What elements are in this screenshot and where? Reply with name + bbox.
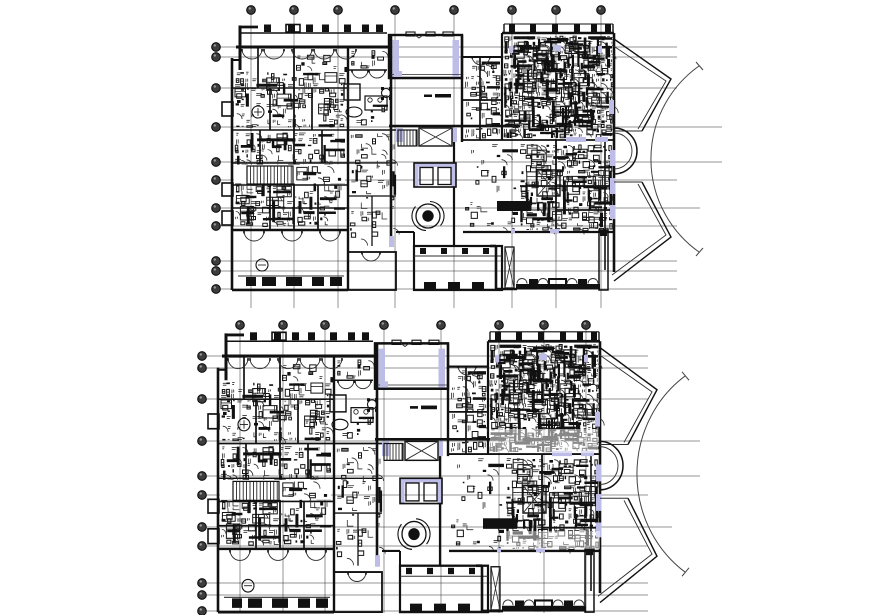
right block parapet [490, 331, 599, 333]
corridor white band [220, 480, 331, 500]
grid bubble left [198, 591, 207, 600]
grid line vertical [239, 329, 241, 613]
grid line horizontal [220, 161, 722, 163]
portico centre [400, 566, 488, 612]
interior wall y70 with doors [334, 379, 373, 381]
wall protrusion left 1 [208, 414, 219, 429]
interior wall vertical x392 [376, 343, 379, 565]
living room couch [330, 395, 346, 412]
apse bay semicircle [600, 441, 623, 489]
grid line vertical [440, 329, 442, 613]
exterior wall top [222, 355, 375, 358]
grid line horizontal [220, 179, 677, 181]
grid bubble top [236, 321, 245, 330]
core top wall y126 [375, 438, 506, 440]
portico step wall [382, 550, 400, 552]
apse bay semicircle [614, 128, 637, 174]
right block exterior wall top [502, 32, 614, 35]
suite block clutter [521, 144, 612, 230]
grid bubble top [437, 321, 446, 330]
grid line horizontal [220, 260, 677, 262]
core blue pads [382, 441, 389, 456]
grid line vertical [555, 14, 557, 308]
canopy chevron bottom inner [612, 184, 666, 275]
hall crenellation [392, 340, 401, 344]
portico centre bottom blocks [424, 282, 436, 289]
white room below hall [435, 94, 451, 98]
living room clutter light [356, 109, 384, 123]
right block wall right [613, 33, 616, 272]
grid bubble left [198, 542, 207, 551]
wall protrusion left 2 [208, 499, 219, 513]
dining set [368, 400, 377, 409]
grid line vertical [453, 14, 455, 308]
bath fixture oval 1 [238, 418, 250, 431]
interior wall vertical x462 [447, 343, 449, 456]
interior wall vertical x348 [347, 47, 349, 290]
terrace right step wall left [481, 566, 484, 612]
grid bubble left [212, 176, 221, 185]
canopy chevron bottom inner [598, 500, 652, 596]
elevator bank [400, 478, 442, 482]
fireplace spiral [416, 204, 440, 228]
grid bubble left [198, 607, 207, 615]
terrace door arcs left wing [244, 231, 254, 241]
canopy stub walls [600, 444, 628, 446]
site arc large [651, 66, 699, 252]
canopy stub walls [614, 130, 642, 132]
terrace right bottom wall band [502, 606, 586, 612]
grid line vertical [498, 329, 500, 613]
dining table [365, 96, 387, 110]
interior wall y88 [218, 398, 334, 400]
terrace blue bit [497, 548, 501, 552]
interior wall y163 [218, 477, 334, 479]
reception desk [497, 201, 531, 211]
grid bubble left [212, 257, 221, 266]
grid line horizontal [220, 207, 700, 209]
terrace posts [529, 279, 538, 288]
living room clutter light [342, 421, 370, 436]
mid rooms clutter [466, 61, 500, 138]
site arc tick top [696, 62, 703, 70]
grid line vertical [394, 14, 396, 308]
terrace bottom blocks [232, 598, 242, 607]
grid bubble left [212, 84, 221, 93]
hall blue pads [393, 40, 400, 77]
elevator X box [537, 170, 560, 196]
terrace right step wall left [495, 246, 498, 290]
interior wall vertical x462 [461, 35, 463, 142]
right block wall inner right [604, 140, 606, 270]
right block parapet [504, 23, 613, 25]
grid bubble top [552, 6, 561, 15]
parapet blocks [264, 25, 271, 33]
grid line vertical [600, 14, 602, 308]
tone correction lower plan [490, 429, 598, 453]
grid bubble left [212, 43, 221, 52]
core X shaft [419, 128, 452, 146]
right block wall left [487, 341, 489, 454]
grid line horizontal [220, 225, 677, 227]
site arc tick bottom [696, 248, 703, 256]
interior wall vertical x294 [279, 356, 281, 549]
reception desk [483, 518, 517, 529]
left wing room clutter lower [221, 447, 331, 545]
hall floor line [391, 74, 461, 76]
wall y57 segment [463, 56, 502, 58]
bath fixture oval 2 [256, 259, 268, 271]
living room oval table [346, 107, 362, 117]
grid bubble top [321, 321, 330, 330]
terrace scallop arcs [503, 600, 513, 605]
exterior wall left [231, 58, 234, 290]
terrace mid-left [334, 572, 382, 612]
exterior wall left [217, 368, 220, 612]
grid line vertical [383, 329, 385, 613]
wall protrusion left 2 [222, 183, 233, 196]
right block wall inner right [590, 454, 592, 591]
grid bubble left [198, 395, 207, 404]
bath fixture oval 2 [242, 579, 254, 592]
corner wall top-left [225, 333, 228, 380]
terrace right wall column [585, 549, 594, 612]
grid line horizontal [220, 56, 677, 58]
grid line horizontal [220, 270, 677, 272]
grid bubble top [290, 6, 299, 15]
grid line horizontal [220, 288, 677, 290]
terrace scallop arcs [517, 279, 527, 284]
core blue pads [396, 128, 403, 142]
core stair hatch [398, 130, 416, 146]
wall protrusion left 3 [222, 211, 233, 225]
interior wall y208 [232, 207, 348, 209]
hall blue pads [379, 349, 386, 388]
left wing room clutter upper [235, 72, 345, 127]
grid line horizontal [206, 582, 648, 584]
interior wall vertical x392 [390, 35, 393, 246]
grid bubble left [212, 123, 221, 132]
terrace right bottom wall band [516, 284, 600, 290]
exterior wall top [236, 46, 389, 49]
portico step wall [396, 231, 414, 233]
grid bubble left [212, 204, 221, 213]
centre furniture band above doors [337, 361, 360, 378]
core stair hatch [384, 443, 402, 460]
grid line horizontal [206, 526, 672, 528]
grid line vertical [511, 14, 513, 308]
grid line horizontal [206, 494, 648, 496]
left wing room clutter upper [221, 383, 331, 441]
grid bubble top [380, 321, 389, 330]
window accent blue extras [394, 71, 402, 77]
grand hall [375, 343, 448, 388]
interior wall y185 [218, 500, 334, 502]
canopy chevron top inner [612, 45, 666, 129]
partition walls left wing [257, 47, 259, 88]
grid bubble left [198, 472, 207, 481]
canopy chevron top outer [600, 348, 657, 445]
grid bubble top [582, 321, 591, 330]
wall y232 right [449, 550, 600, 552]
corner wall top-left [239, 26, 242, 71]
grid bubble left [198, 491, 207, 500]
grid bubble left [198, 437, 207, 446]
grid line vertical [250, 14, 252, 308]
left wing room clutter lower [235, 133, 345, 226]
grid line vertical [324, 329, 326, 613]
hall bottom wall [389, 77, 462, 79]
grid line horizontal [220, 87, 677, 89]
site arc large [637, 376, 685, 572]
exterior wall bottom left wing [218, 611, 334, 614]
hall bottom wall [375, 388, 448, 390]
grid bubble left [212, 158, 221, 167]
elevator bank [414, 163, 456, 167]
terrace X box [491, 567, 500, 610]
suite block clutter [507, 459, 598, 549]
portico centre bottom blocks [410, 604, 422, 611]
site arc tick top [682, 372, 689, 380]
partition walls right [465, 367, 467, 454]
grid bubble top [508, 6, 517, 15]
interior wall vertical x294 [293, 47, 295, 230]
centre furniture band above doors [351, 52, 374, 68]
interior wall vertical x348 [333, 356, 335, 612]
core top wall y126 [389, 125, 520, 127]
bath fixture oval 1 [252, 106, 264, 118]
grid line horizontal [206, 367, 648, 369]
terrace wall y230 [232, 229, 348, 231]
grid bubble top [334, 6, 343, 15]
terrace inner line [238, 275, 344, 277]
grid line horizontal [206, 355, 648, 357]
interior wall vertical x454 [453, 140, 455, 246]
interior wall y185 [232, 184, 348, 186]
exterior wall bottom left wing [232, 289, 348, 292]
terrace door arcs left wing [230, 550, 240, 561]
grid bubble left [212, 53, 221, 62]
grid bubble top [495, 321, 504, 330]
interior wall y208 [218, 525, 334, 527]
grid line horizontal [206, 545, 648, 547]
grid line vertical [585, 329, 587, 613]
interior wall y70 with doors [348, 69, 387, 71]
terrace posts [515, 600, 524, 609]
grid bubble top [540, 321, 549, 330]
window accent blue extras [380, 381, 388, 387]
window accents blue right wall [596, 465, 602, 482]
grid line horizontal [206, 610, 648, 612]
wall protrusion left 1 [222, 102, 233, 116]
grid bubble top [279, 321, 288, 330]
corridor white band [234, 165, 345, 184]
centre corridor clutter [337, 447, 380, 543]
interior wall vertical x454 [439, 454, 441, 566]
grid bubble left [198, 579, 207, 588]
elevator X box [523, 486, 546, 513]
wall y57 segment [449, 366, 488, 368]
right block wall right [599, 341, 602, 593]
terrace inner line [224, 596, 330, 598]
living room couch [344, 84, 360, 100]
wall y140 [449, 453, 600, 455]
canopy chevron bottom outer [600, 498, 657, 602]
grid line horizontal [206, 594, 648, 596]
grand hall [389, 35, 462, 78]
wall y140 [463, 139, 614, 141]
mid rooms clutter [452, 371, 486, 452]
grid line vertical [337, 14, 339, 308]
partition walls centre [334, 477, 382, 479]
fireplace spiral [402, 521, 426, 546]
interior wall y130 [232, 129, 396, 131]
grid bubble left [198, 523, 207, 532]
window accents blue right wall [610, 150, 616, 166]
grid bubble top [450, 6, 459, 15]
service block clutter dense [504, 36, 614, 137]
corridor clutter sparse right [466, 145, 513, 226]
parapet blocks [250, 332, 257, 340]
corridor clutter sparse right [452, 459, 499, 544]
grid line horizontal [206, 398, 648, 400]
grid line horizontal [220, 126, 722, 128]
wall y232 right [463, 231, 614, 233]
centre corridor clutter [351, 134, 394, 225]
terrace right wall column [599, 230, 608, 290]
interior wall y163 [232, 162, 348, 164]
terrace mid-left [348, 252, 396, 290]
partition walls right [479, 57, 481, 140]
hall floor line [377, 384, 447, 386]
terrace wall y230 [218, 548, 334, 550]
grid bubble top [597, 6, 606, 15]
grid line vertical [543, 329, 545, 613]
partition walls centre [348, 162, 396, 164]
site arc tick bottom [682, 568, 689, 576]
terrace X box [505, 247, 514, 288]
canopy chevron top inner [598, 354, 652, 443]
grid bubble left [212, 222, 221, 231]
dining table [351, 408, 373, 423]
portico centre [414, 246, 502, 290]
canopy chevron bottom outer [614, 182, 671, 281]
terrace blue bit [511, 229, 515, 233]
entry door arcs top row [242, 49, 252, 59]
interior wall y130 [218, 442, 382, 444]
grid line horizontal [206, 440, 700, 442]
door arcs mid top [458, 366, 467, 375]
living room oval table [332, 419, 348, 430]
right block wall left [501, 33, 503, 140]
grid bubble left [212, 267, 221, 276]
stair flight hatch [233, 481, 277, 500]
right block exterior wall top [488, 340, 600, 343]
service block clutter dense [490, 345, 600, 451]
grid line vertical [293, 14, 295, 308]
window accents blue top [566, 137, 586, 142]
grid line horizontal [220, 46, 677, 48]
grid bubble top [391, 6, 400, 15]
partition walls left wing [243, 356, 245, 399]
stair flight hatch [247, 166, 291, 184]
grid line vertical [282, 329, 284, 613]
grid bubble left [198, 364, 207, 373]
dining set [382, 89, 391, 98]
wall protrusion left 3 [208, 529, 219, 544]
terrace bottom blocks [246, 277, 256, 286]
door arcs mid top [472, 56, 481, 65]
core X shaft [405, 441, 438, 460]
window accents blue top [552, 451, 572, 456]
grid bubble left [198, 352, 207, 361]
grid line horizontal [206, 475, 700, 477]
grid bubble left [212, 285, 221, 294]
hall crenellation [406, 32, 415, 36]
canopy chevron top outer [614, 39, 671, 131]
entry door arcs top row [228, 358, 238, 369]
parapet line top [240, 32, 387, 34]
parapet line top [226, 340, 373, 342]
grid bubble top [247, 6, 256, 15]
interior wall y88 [232, 87, 348, 89]
white room below hall [421, 406, 437, 410]
